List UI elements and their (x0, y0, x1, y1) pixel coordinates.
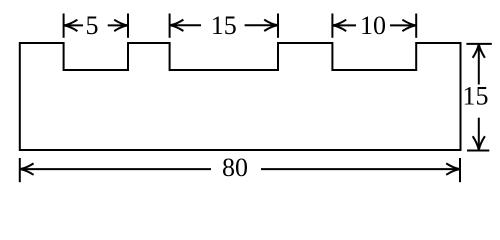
dim 15 vertical top extension line (466, 43, 491, 45)
svg-text:10: 10 (360, 11, 386, 40)
svg-text:15: 15 (211, 11, 237, 40)
dim 80 extension tick left (19, 158, 21, 182)
dim 15 extension line left (169, 14, 171, 38)
dim 5 right arrow shaft (108, 24, 128, 26)
dim 80 right arrowhead (446, 163, 460, 174)
dim 80 left arrowhead (20, 163, 34, 174)
dim 15 vertical up arrow shaft (478, 44, 480, 85)
dim 10 extension line left (331, 14, 333, 38)
dim 5 extension line right (127, 14, 129, 38)
dim 10 left arrowhead (332, 20, 346, 31)
dim 5 right arrowhead (114, 20, 128, 31)
dim 15 vertical down arrowhead (473, 136, 485, 150)
svg-text:80: 80 (222, 153, 248, 182)
dim 10 right arrow shaft (390, 24, 416, 26)
dim 10 right arrowhead (402, 20, 416, 31)
dim 5 left arrowhead (64, 20, 78, 31)
dim 15 right arrow shaft (245, 24, 278, 26)
dim 80 right arrow shaft (261, 168, 460, 170)
dim 80 left arrow shaft (20, 168, 211, 170)
dim 15 vertical down arrow shaft (478, 118, 480, 150)
dim 10 left arrow shaft (332, 24, 356, 26)
dim 15 left arrow shaft (170, 24, 201, 26)
svg-text:5: 5 (86, 11, 99, 40)
svg-text:15: 15 (463, 82, 489, 111)
dim 15 vertical bottom extension line (467, 150, 489, 152)
dim 15 extension line right (277, 14, 279, 38)
dim 5 left arrow shaft (64, 24, 83, 26)
dim 15 left arrowhead (170, 20, 184, 31)
dim 5 extension line left (63, 14, 65, 38)
dim 10 extension line right (415, 14, 417, 38)
dim 80 extension tick right (459, 158, 461, 182)
part outline (notched bar profile) (20, 43, 461, 150)
dim 15 right arrowhead (264, 20, 278, 31)
dim 15 vertical up arrowhead (473, 44, 485, 58)
